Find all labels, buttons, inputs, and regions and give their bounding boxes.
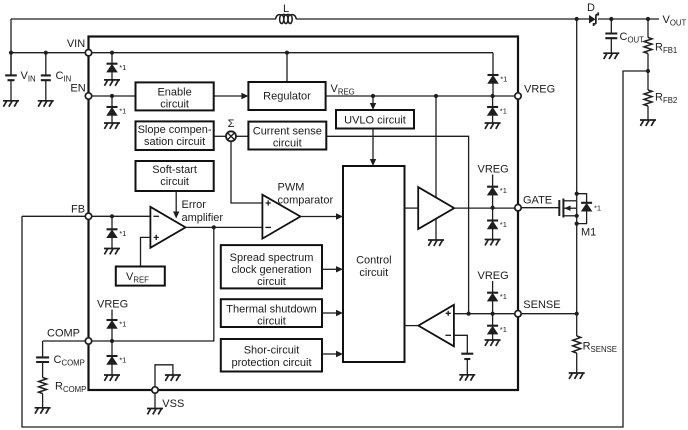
node CIN junction	[44, 51, 48, 55]
wire top rail inductor to diode D	[296, 18, 589, 20]
wire COMP pin to compensation network	[43, 340, 89, 342]
svg-text:circuit: circuit	[257, 315, 286, 327]
capacitor CIN	[45, 53, 47, 76]
wire arrow PWM comparator to control circuit	[300, 216, 336, 218]
capacitor CCOMP	[42, 341, 44, 357]
diode *1 VREG clamp to ground	[492, 96, 494, 107]
node COUT junction	[609, 17, 613, 21]
svg-text:clock generation: clock generation	[231, 264, 311, 276]
node RFB1 junction on rail	[646, 17, 650, 21]
diode *1 COMP clamp to ground	[111, 341, 113, 356]
svg-text:COMP: COMP	[47, 328, 80, 340]
svg-text:VREG: VREG	[478, 270, 509, 282]
pin EN	[85, 93, 91, 99]
svg-text:Σ: Σ	[228, 118, 235, 130]
svg-text:protection circuit: protection circuit	[231, 357, 311, 369]
svg-text:VSS: VSS	[162, 398, 184, 410]
pin VREG	[515, 93, 521, 99]
wire sense comparator minus input to reference	[454, 335, 467, 353]
wire arrow shor-circuit to control circuit	[322, 353, 337, 355]
diode *1 VREG-to-GATE clamp	[492, 175, 494, 187]
ground under reference	[459, 375, 475, 381]
buffer gate driver	[418, 187, 454, 229]
wire arrow into UVLO circuit	[372, 96, 374, 103]
node UVLO supply junction	[371, 94, 375, 98]
svg-text:Current sense: Current sense	[253, 126, 322, 138]
svg-text:*1: *1	[119, 107, 126, 116]
ground internal at VSS	[165, 375, 181, 381]
svg-text:*1: *1	[500, 107, 507, 116]
wire sense comparator output to control circuit	[405, 325, 419, 327]
transistor M1 NMOS	[518, 207, 559, 209]
wire slope comp to adder	[214, 135, 226, 137]
node error amp output junction	[212, 225, 216, 229]
node switch junction on top rail	[575, 17, 579, 21]
capacitor COUT	[610, 19, 612, 34]
svg-text:Error: Error	[182, 199, 207, 211]
node M1 source junction	[575, 214, 579, 218]
node regulator supply junction	[285, 51, 289, 55]
pin COMP	[85, 338, 91, 344]
node M1 drain diode junction	[575, 192, 579, 196]
source VIN battery symbol	[10, 53, 12, 76]
block Enable circuit	[136, 82, 214, 110]
svg-text:PWM: PWM	[278, 182, 305, 194]
wire current sense output down to sense comparator input	[326, 136, 468, 313]
svg-text:VREG: VREG	[478, 164, 509, 176]
svg-text:circuit: circuit	[160, 99, 189, 111]
wire adder to PWM comparator plus input	[231, 141, 262, 203]
wire arrow spread spectrum to control circuit	[322, 268, 337, 270]
svg-text:*1: *1	[119, 229, 126, 238]
wire VIN input line to VIN pin	[11, 52, 89, 54]
wire gate driver output to GATE pin	[454, 207, 518, 209]
wire input vertical at left edge	[10, 19, 12, 75]
reference source at comparator minus input	[461, 353, 473, 355]
svg-text:GATE: GATE	[523, 195, 552, 207]
svg-text:sation circuit: sation circuit	[144, 136, 205, 148]
diode *1 EN clamp to ground	[111, 96, 113, 107]
node M1 source diode junction	[575, 222, 579, 226]
ground under VIN source	[3, 101, 19, 107]
adder node	[226, 131, 236, 141]
svg-text:circuit: circuit	[273, 138, 302, 150]
node FB clamp junction	[110, 214, 114, 218]
wire feedback from FB pin around bottom to divider	[22, 71, 648, 427]
diode *1 FB clamp to ground	[111, 216, 113, 229]
wire enable to regulator with arrow	[214, 95, 242, 97]
diode *1 SENSE clamp to ground	[492, 314, 494, 326]
pin VSS	[152, 387, 158, 393]
wire FB line into error amplifier minus input	[22, 215, 150, 217]
ground under RFB2	[640, 120, 656, 126]
wire arrow thermal shutdown to control circuit	[322, 312, 337, 314]
svg-text:EN: EN	[70, 83, 85, 95]
wire driver supply from VREG rail	[435, 96, 437, 197]
wire SENSE pin to RSENSE	[518, 313, 577, 315]
diode *1 VREG-to-SENSE clamp	[492, 281, 494, 293]
svg-text:UVLO circuit: UVLO circuit	[344, 114, 406, 126]
ground under gate driver	[428, 240, 444, 246]
svg-text:VIN: VIN	[67, 38, 85, 50]
wire regulator supply drop	[286, 53, 288, 82]
node driver supply junction	[434, 94, 438, 98]
resistor RSENSE	[576, 314, 578, 336]
block Control circuit	[343, 166, 405, 362]
svg-text:*1: *1	[500, 292, 507, 301]
svg-text:Regulator: Regulator	[263, 91, 311, 103]
svg-text:circuit: circuit	[257, 276, 286, 288]
ground under CIN	[38, 101, 54, 107]
pin FB	[85, 213, 91, 219]
svg-text:M1: M1	[581, 227, 596, 239]
block UVLO circuit	[336, 110, 414, 129]
svg-text:VREG: VREG	[524, 84, 555, 96]
pin VIN	[85, 50, 91, 56]
wire top rail diode to VOUT terminal	[598, 18, 659, 20]
wire internal VIN rail	[89, 52, 494, 54]
node feedback divider junction	[646, 69, 650, 73]
svg-text:VREG: VREG	[97, 299, 128, 311]
comparator sense	[418, 305, 454, 347]
block Spread spectrum clock generation circuit	[221, 245, 322, 288]
ground under RCOMP	[35, 408, 51, 414]
wire control circuit to gate driver	[405, 207, 419, 209]
node EN clamp junction	[110, 94, 114, 98]
wire VSS internal ground link	[155, 365, 173, 390]
block Regulator	[248, 82, 325, 110]
IC block outline	[89, 37, 519, 391]
svg-text:circuit: circuit	[359, 267, 388, 279]
wire top rail from input to inductor	[11, 18, 276, 20]
wire arrow UVLO to control circuit	[372, 129, 374, 160]
wire switch-node vertical to M1 drain	[576, 19, 578, 201]
svg-text:SENSE: SENSE	[523, 299, 560, 311]
op-amp error amplifier	[150, 207, 185, 248]
svg-text:*1: *1	[500, 220, 507, 229]
ground under RSENSE	[569, 373, 585, 379]
wire error amplifier output to PWM comparator minus input	[186, 226, 263, 228]
svg-text:*1: *1	[500, 186, 507, 195]
svg-text:L: L	[283, 3, 289, 15]
wire adder to current sense circuit	[236, 135, 248, 137]
svg-text:D: D	[587, 2, 595, 14]
diode *1 GATE clamp to ground	[492, 208, 494, 221]
pin SENSE	[515, 311, 521, 317]
wire SENSE pin line to comparator plus input	[454, 313, 518, 315]
svg-text:circuit: circuit	[160, 176, 189, 188]
svg-text:*1: *1	[594, 204, 601, 213]
svg-text:comparator: comparator	[278, 195, 334, 207]
ground external under VSS	[147, 409, 163, 415]
resistor RCOMP	[42, 362, 44, 378]
svg-text:Slope compen-: Slope compen-	[138, 124, 212, 136]
svg-text:*1: *1	[119, 356, 126, 365]
svg-text:*1: *1	[119, 63, 126, 72]
diode *1 across M1	[577, 194, 587, 203]
pin GATE	[515, 205, 521, 211]
svg-text:*1: *1	[119, 320, 126, 329]
wire error amp output down to COMP pin	[89, 227, 214, 341]
node RSENSE junction	[575, 312, 579, 316]
wire EN pin to enable circuit	[89, 95, 136, 97]
wire driver ground stem	[435, 219, 437, 240]
diode D (schottky)	[589, 15, 596, 24]
diode *1 VIN clamp to ground	[111, 53, 113, 64]
svg-text:Shor-circuit: Shor-circuit	[244, 345, 300, 357]
svg-text:Control: Control	[356, 255, 391, 267]
svg-text:*1: *1	[500, 75, 507, 84]
wire arrow soft-start to error amplifier	[175, 191, 177, 212]
node GATE clamp junction	[491, 206, 495, 210]
ground under COUT	[603, 53, 619, 59]
diode *1 VREG-to-COMP clamp	[111, 310, 113, 321]
svg-text:Enable: Enable	[157, 87, 191, 99]
svg-text:*1: *1	[500, 325, 507, 334]
wire VREF to error amplifier plus input	[141, 237, 151, 266]
svg-text:FB: FB	[71, 204, 85, 216]
resistor RFB2	[647, 71, 649, 90]
block Soft-start circuit	[136, 161, 214, 191]
wire VREG rail from regulator to VREG pin	[326, 95, 518, 97]
block Slope compensation circuit	[136, 121, 214, 150]
svg-text:Thermal shutdown: Thermal shutdown	[226, 303, 317, 315]
node input rail corner	[9, 51, 13, 55]
svg-text:amplifier: amplifier	[182, 212, 224, 224]
inductor L	[276, 14, 297, 23]
op-amp PWM comparator	[262, 195, 300, 239]
block Thermal shutdown circuit	[221, 299, 322, 327]
block Current sense circuit	[248, 122, 326, 150]
block VREF	[116, 267, 165, 286]
resistor RFB1	[647, 19, 649, 38]
node COMP clamp junction	[110, 339, 114, 343]
node sense line junction	[467, 312, 471, 316]
svg-text:Soft-start: Soft-start	[152, 164, 197, 176]
wire VSS pin to external ground	[154, 390, 156, 409]
node VREG clamp junction	[491, 94, 495, 98]
block Shor-circuit protection circuit	[221, 339, 322, 372]
node SENSE clamp junction	[491, 312, 495, 316]
node VIN clamp junction	[110, 51, 114, 55]
diode *1 VREG-to-VIN clamp	[492, 53, 494, 75]
svg-text:Spread spectrum: Spread spectrum	[230, 252, 314, 264]
